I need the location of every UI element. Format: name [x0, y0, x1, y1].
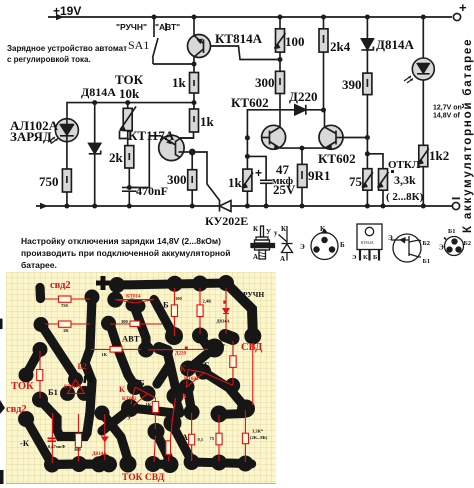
svg-text:Д814А: Д814А: [92, 452, 107, 457]
node arrow top rail: [56, 14, 64, 20]
red line 300: [110, 323, 162, 325]
trace E vertical: [188, 390, 192, 415]
svg-text:Б2: Б2: [464, 240, 472, 247]
trace big pad horizontal: [131, 408, 179, 414]
svg-text:100: 100: [175, 296, 183, 301]
red line 1K: [45, 323, 90, 325]
zener D814A left: [89, 103, 101, 206]
svg-text:2k4: 2k4: [330, 39, 351, 54]
svg-text:СВД: СВД: [241, 342, 263, 353]
resistor 390: [363, 73, 372, 137]
svg-text:25V: 25V: [273, 182, 296, 197]
svg-text:750: 750: [61, 303, 69, 308]
trace from 2k4 pad down-left: [190, 336, 215, 369]
trace AVT diagonal long: [110, 324, 135, 386]
svg-text:Э: Э: [388, 234, 393, 242]
svg-text:КТ814: КТ814: [126, 295, 141, 300]
transistor Q3 KT602 right: [302, 110, 367, 149]
trace left vertical: [40, 297, 92, 437]
trace mid vertical: [134, 306, 146, 349]
trace D220 pads: [159, 348, 167, 351]
svg-text:2,4К: 2,4К: [203, 299, 213, 304]
svg-text:0,47мкФ: 0,47мкФ: [48, 444, 66, 449]
svg-text:300: 300: [255, 75, 275, 90]
svg-text:Б2: Б2: [423, 240, 431, 247]
svg-text:э: э: [127, 413, 131, 422]
red triangle KT814: [115, 300, 154, 304]
red col B svd: [252, 344, 254, 405]
svg-text:производить при подключенной а: производить при подключенной аккумулятор…: [21, 248, 230, 258]
trace svd2 diagonal: [26, 350, 40, 376]
svg-text:КТ602: КТ602: [122, 397, 137, 402]
red line 750: [45, 298, 90, 300]
svg-text:SA1: SA1: [128, 38, 149, 52]
pad pair top-left: [35, 288, 45, 299]
trimmer 100: [275, 17, 286, 71]
resistor 2k4: [319, 17, 328, 110]
trace pad to E: [175, 397, 180, 413]
svg-text:КТ117А: КТ117А: [128, 128, 175, 143]
svg-text:-А: -А: [179, 432, 189, 442]
red col 75: [218, 415, 220, 461]
package can KT602 bottom view: [300, 225, 345, 260]
svg-text:300: 300: [167, 172, 187, 187]
red col 0.47: [51, 413, 53, 463]
thyristor KU202E: [220, 201, 232, 212]
pcb bottom edge line: [6, 483, 276, 485]
svg-text:КТ117А: КТ117А: [64, 385, 82, 390]
wire bottom rail right part: [231, 205, 452, 207]
wire upper-mid horizontal: [67, 103, 194, 119]
svg-text:Э: Э: [181, 392, 187, 401]
red triangle KT602 right: [187, 370, 233, 388]
svg-text:с регулировкой тока.: с регулировкой тока.: [7, 55, 91, 64]
LED AL102A: [55, 119, 78, 142]
svg-text:К аккумуляторной батарее: К аккумуляторной батарее: [462, 38, 474, 233]
svg-text:1k2: 1k2: [429, 148, 449, 163]
svg-text:100: 100: [285, 34, 305, 49]
svg-text:75: 75: [210, 436, 215, 441]
package KT117 bottom view: [439, 228, 471, 256]
svg-text:ТОК: ТОК: [115, 72, 144, 87]
trace Y split: [167, 351, 170, 364]
trace bottom mid horizontal: [52, 459, 111, 469]
svg-text:батарее.: батарее.: [21, 260, 57, 270]
svg-text:14,8V of: 14,8V of: [433, 113, 461, 120]
capacitor 47uF 25V: [247, 156, 272, 206]
LED indicator right: [412, 17, 434, 145]
svg-text:Э: Э: [439, 244, 444, 252]
trace RUCHN diagonal: [226, 283, 253, 333]
left margin fragments: [0, 319, 3, 330]
thyristor symbol pinout: [274, 225, 293, 263]
trimmer 3.3k OTKL: [367, 154, 388, 206]
svg-text:КУ202Е: КУ202Е: [205, 214, 248, 228]
svg-text:Б: Б: [163, 300, 169, 310]
trace bottom right horizontal: [219, 414, 244, 415]
svg-text:10k: 10k: [119, 86, 140, 101]
wire bottom rail left part: [36, 205, 220, 207]
trace bottom mid pads: [153, 460, 170, 470]
zener D814A right: [361, 17, 373, 73]
package KU202 stud side view: [251, 225, 275, 261]
red col 100: [173, 288, 175, 336]
trace bottom right bus: [192, 462, 252, 464]
svg-text:свд2: свд2: [6, 404, 27, 415]
svg-text:12,7V on: 12,7V on: [433, 105, 462, 112]
svg-text:у: у: [274, 229, 278, 237]
transistor Q2 KT602 left: [262, 125, 302, 149]
svg-text:Д220: Д220: [175, 351, 186, 356]
diode D220: [247, 105, 323, 138]
svg-text:Д834А: Д834А: [217, 319, 231, 324]
svg-text:КТ602: КТ602: [231, 95, 269, 110]
svg-text:КТ814А: КТ814А: [215, 31, 263, 46]
transistor Q1 KT814A: [188, 17, 281, 64]
svg-text:К: К: [363, 254, 368, 261]
trace svd double pad: [225, 336, 233, 339]
svg-text:"АВТ": "АВТ": [155, 22, 180, 32]
pads: [85, 290, 100, 305]
svg-text:Настройку отключения зарядки 1: Настройку отключения зарядки 14,8V (2...…: [21, 236, 221, 246]
svg-text:-К: -К: [20, 438, 30, 448]
red col TOK: [39, 351, 41, 398]
red line D220: [148, 348, 208, 351]
switch SA1: [153, 17, 195, 64]
svg-text:А: А: [280, 255, 285, 263]
svg-text:9,1: 9,1: [198, 437, 204, 442]
red col D814A pcb: [225, 288, 227, 334]
resistor 300 (upper): [276, 71, 285, 127]
svg-text:Б1: Б1: [423, 258, 431, 265]
node arrow bottom rail: [40, 203, 48, 209]
svg-text:Б1: Б1: [48, 387, 58, 397]
resistor 1k (collector KT814): [190, 64, 199, 103]
PCB board background: [6, 272, 276, 483]
transistor KT117A UJT: [129, 135, 193, 187]
red triangle KT602 left: [131, 387, 148, 406]
svg-text:У: У: [266, 228, 271, 236]
svg-text:Б2: Б2: [78, 362, 87, 371]
svg-text:9R1: 9R1: [308, 168, 330, 183]
resistor 9R1: [298, 148, 308, 206]
svg-text:КТ602: КТ602: [318, 151, 356, 166]
resistor 300 (UJT b1): [188, 150, 197, 207]
red line 1K mid: [91, 348, 141, 350]
capacitor 470nF: [122, 188, 137, 207]
pcb plus mark: [96, 276, 110, 290]
svg-text:750: 750: [39, 174, 59, 189]
package KT814A front view: [352, 224, 382, 261]
red col 300 left: [77, 414, 79, 461]
transistor KT117 symbol: [388, 234, 430, 265]
svg-text:Д814А: Д814А: [81, 85, 116, 99]
svg-text:3,3k: 3,3k: [394, 173, 416, 187]
trace diag to bottom: [103, 414, 128, 460]
trace KT602 right collector: [203, 372, 244, 406]
svg-text:Д814А: Д814А: [376, 37, 414, 52]
trace KT814 right diagonal: [154, 300, 174, 337]
svg-text:ОТКЛ: ОТКЛ: [388, 159, 421, 171]
wire top +19V rail: [48, 16, 452, 18]
trimmer 1k (left KT602 base): [242, 138, 253, 206]
svg-text:390: 390: [342, 77, 362, 92]
red triangle KT117A: [68, 380, 85, 394]
trace -K diagonal: [27, 420, 53, 465]
svg-text:РУЧН: РУЧН: [243, 290, 264, 299]
resistor 2k: [125, 146, 134, 187]
svg-text:1К: 1К: [146, 402, 152, 407]
svg-text:К: К: [180, 364, 186, 373]
svg-text:300: 300: [74, 447, 82, 452]
svg-text:А: А: [253, 253, 258, 261]
trace X leg 2: [172, 424, 192, 461]
trimmer TOK 10k: [120, 103, 137, 146]
node + battery terminal: [453, 13, 460, 20]
wire UJT b1 to thyristor gate: [192, 152, 220, 201]
trimmer 1k2: [418, 145, 429, 206]
svg-text:470nF: 470nF: [136, 184, 168, 198]
svg-text:Д220: Д220: [289, 89, 317, 104]
svg-text:Зарядное устройство автомат: Зарядное устройство автомат: [7, 44, 127, 53]
red col 2.4K: [199, 288, 201, 334]
svg-text:2k: 2k: [109, 150, 124, 165]
red col 9.1: [191, 413, 193, 461]
svg-text:Э: Э: [300, 243, 305, 251]
svg-text:ТОК СВД: ТОК СВД: [122, 473, 165, 483]
trace X leg 1: [156, 432, 169, 459]
red col E right: [169, 398, 176, 461]
svg-text:1К: 1К: [102, 352, 108, 357]
svg-text:+19V: +19V: [53, 4, 81, 18]
pcb letter P mark: [85, 376, 92, 383]
svg-text:ЗАРЯД: ЗАРЯД: [10, 129, 52, 144]
svg-text:"РУЧН": "РУЧН": [116, 22, 147, 32]
svg-text:3,3К*: 3,3К*: [252, 429, 264, 434]
svg-text:Б: Б: [373, 254, 377, 261]
resistor 1k (to UJT b2): [179, 103, 199, 138]
svg-text:1k: 1k: [172, 75, 187, 90]
svg-text:+: +: [459, 0, 467, 15]
red col A svd: [232, 341, 234, 385]
svg-text:1k: 1k: [228, 175, 243, 190]
red col 3.3K: [244, 410, 246, 462]
svg-text:( 2...8К): ( 2...8К): [386, 191, 424, 203]
resistor 750: [62, 142, 71, 207]
trace KT814 middle blob: [132, 305, 139, 306]
svg-text:+: +: [255, 166, 262, 180]
svg-text:(2К...8К): (2К...8К): [250, 435, 268, 440]
svg-text:300: 300: [121, 319, 129, 324]
svg-text:Э: Э: [352, 254, 357, 261]
svg-text:КТ814А: КТ814А: [361, 241, 374, 245]
svg-text:1К: 1К: [63, 328, 69, 333]
trace big pad diag left: [102, 408, 131, 431]
red col 1K KT602: [148, 394, 156, 463]
svg-text:КТ602: КТ602: [184, 377, 199, 382]
svg-text:75: 75: [349, 174, 363, 189]
svg-text:1k: 1k: [200, 114, 215, 129]
svg-text:ТОК: ТОК: [11, 381, 34, 392]
svg-text:К: К: [119, 385, 125, 394]
trimmer 75: [362, 138, 373, 207]
red col D814A bottom: [104, 414, 106, 460]
trace tok feed: [41, 325, 77, 380]
svg-text:Б: Б: [204, 360, 210, 370]
svg-text:Б: Б: [340, 241, 345, 249]
svg-text:Б: Б: [139, 378, 145, 388]
svg-text:свд2: свд2: [50, 280, 71, 291]
node - battery terminal: [452, 202, 459, 209]
svg-text:АВТ: АВТ: [122, 334, 140, 344]
svg-text:Б1: Б1: [448, 228, 456, 235]
trace top bus: [117, 283, 226, 285]
